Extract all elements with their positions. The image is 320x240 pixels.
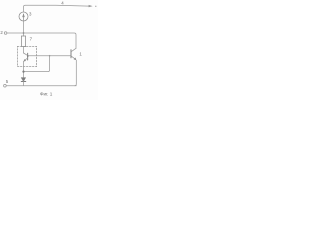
dashed box sensor	[17, 46, 36, 66]
tap wire down from base line	[24, 56, 50, 72]
diode 6 cathode bar	[21, 81, 25, 83]
svg-text:1: 1	[79, 51, 82, 56]
transistor 1 emitter with arrow	[71, 56, 75, 59]
bottom rail wire	[6, 85, 76, 87]
base wire from Q2 to transistor 1	[28, 55, 71, 57]
wire top from current source up and right	[24, 5, 90, 12]
junction dot base tap	[49, 55, 51, 57]
junction dot Q2 base	[27, 55, 29, 57]
svg-text:3: 3	[29, 11, 32, 16]
svg-text:4: 4	[61, 1, 64, 6]
svg-text:7: 7	[30, 37, 33, 42]
transistor Q2 emitter with arrow	[24, 58, 27, 61]
resistor 7	[21, 36, 25, 47]
wire from terminal 2 to corner and down to transistor 1 collector	[7, 33, 76, 48]
transistor 1 collector diagonal	[71, 48, 76, 52]
svg-text:2: 2	[0, 30, 3, 35]
junction dot at diode top	[22, 71, 24, 73]
wire resistor to dashed box	[23, 47, 25, 53]
current source 3	[19, 12, 28, 21]
transistor Q2 collector	[24, 53, 28, 55]
svg-text:5: 5	[6, 79, 9, 84]
wire Q2 emitter down through box to junction	[23, 61, 25, 77]
wire diode to rail	[23, 82, 25, 86]
junction node at resistor top	[23, 32, 25, 34]
svg-text:Фиг. 1: Фиг. 1	[40, 91, 53, 96]
wire current source to resistor	[23, 21, 25, 36]
transistor 1 base bar	[70, 50, 72, 58]
dot after arrow	[95, 6, 96, 7]
arrow output 4	[89, 5, 93, 7]
transistor Q2 in dashed box: base bar	[27, 53, 29, 60]
terminal 2 circle	[4, 32, 7, 35]
wire transistor 1 emitter down to rail	[75, 60, 77, 86]
diode 6 triangle	[21, 78, 25, 82]
terminal 5 circle	[4, 84, 7, 87]
